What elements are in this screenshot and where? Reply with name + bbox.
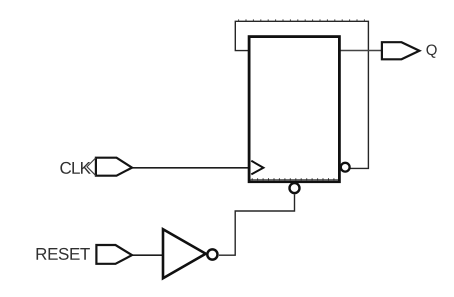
flip-flop U1 bottom-edge inner tick marks [251,178,338,180]
port RESET connector symbol [96,245,132,264]
wire (Q output net to port Q) [340,50,382,52]
port RESET label [35,245,90,264]
wire (feedback net from Q-bar bubble to D input, right+top+left segments) [235,21,368,168]
wire (RESET net from port to inverter input) [132,254,164,256]
wire (inverter output to bottom pin bubble) [219,194,295,255]
port Q label [426,42,438,59]
flip-flop U1 inversion bubble on bottom (clear) pin [290,183,300,193]
flip-flop U1 inversion bubble on Q-bar pin (right edge) [341,163,350,172]
svg-text:CLK: CLK [59,159,91,178]
flip-flop U1 clock pin triangle [251,161,263,175]
wire (feedback net, tick marks along top segment) [239,19,365,21]
svg-text:RESET: RESET [35,245,90,264]
flip-flop U1 body [249,37,339,182]
port CLK label [59,159,91,178]
port CLK connector symbol [87,158,132,176]
inverter U2 triangle [163,229,206,278]
inverter U2 output bubble [207,249,217,259]
svg-text:Q: Q [426,42,438,59]
port Q connector symbol [382,42,420,59]
wire (CLK net from port to clock pin) [132,167,249,169]
